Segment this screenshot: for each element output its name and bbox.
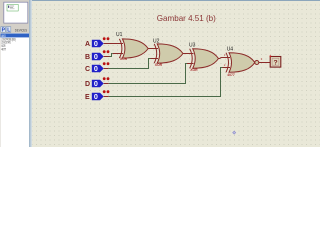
xor gate U1 [116, 32, 148, 61]
xnor gate U4 [226, 47, 259, 77]
svg-text:XOR: XOR [155, 63, 163, 67]
device row XOR [1, 44, 6, 48]
svg-text:0: 0 [94, 39, 98, 48]
xor gate U3 [189, 42, 219, 72]
DEVICES header label [15, 28, 28, 33]
schematic canvas background [32, 0, 320, 147]
logic probe (BIG) [270, 55, 281, 67]
logicstate E [92, 90, 110, 101]
svg-text:U2: U2 [153, 38, 160, 44]
svg-text:U4: U4 [227, 47, 234, 53]
title text Gambar 4.51 (b) [157, 13, 216, 23]
input label C [85, 66, 90, 73]
svg-text:D: D [85, 81, 90, 88]
preview thumbnail sheet [7, 4, 18, 11]
overview preview window [4, 2, 28, 23]
wire C to U2 pin2 [104, 59, 158, 69]
svg-text:XOR: XOR [190, 68, 198, 72]
device row LOGICSTATE [1, 41, 11, 45]
svg-text:DEVICES: DEVICES [15, 28, 28, 33]
svg-text:U1: U1 [116, 32, 123, 38]
svg-text:4077: 4077 [1, 48, 6, 52]
logicstate A [92, 37, 110, 48]
input label D [85, 81, 90, 88]
selected device row AND [1, 34, 30, 38]
svg-text:0: 0 [94, 79, 98, 88]
device row LOGICPROBE [BIG] [1, 37, 16, 41]
wire A to U1 pin1 [104, 43, 123, 45]
logicstate B [92, 50, 110, 61]
svg-text:Gambar 4.51 (b): Gambar 4.51 (b) [157, 13, 216, 23]
wire B to U1 pin2 [104, 54, 123, 57]
svg-text:L: L [7, 28, 10, 34]
device list white area [1, 33, 30, 147]
svg-text:XOR: XOR [120, 57, 128, 61]
svg-text:0: 0 [94, 92, 98, 101]
svg-text:4077: 4077 [227, 73, 235, 77]
svg-text:A: A [85, 41, 90, 48]
device row 4077 [1, 48, 6, 52]
wire U1 output to U2 pin1 [148, 48, 159, 50]
svg-text:B: B [85, 54, 90, 61]
wire U4 output to logic probe [259, 62, 270, 64]
left object-selector panel background [0, 0, 29, 147]
wire U3 output to U4 pin1 [218, 58, 230, 59]
input label B [85, 54, 90, 61]
wire D to U3 pin2 [104, 64, 194, 84]
L library button [6, 27, 11, 34]
svg-text:E: E [85, 94, 90, 101]
P pick-device button [1, 27, 6, 34]
wire E to U4 pin2 [104, 68, 230, 97]
logicstate C [92, 62, 110, 73]
input label E [85, 94, 90, 101]
svg-text:0: 0 [94, 64, 98, 73]
svg-text:0: 0 [94, 52, 98, 61]
U4 pin number 1 [224, 53, 226, 57]
svg-text:C: C [85, 66, 90, 73]
cursor origin marker [232, 131, 236, 135]
input label A [85, 41, 90, 48]
U4 pin number 3 [261, 57, 263, 61]
svg-text:?: ? [274, 60, 278, 67]
logicstate D [92, 77, 110, 88]
U4 pin number 2 [224, 63, 226, 67]
xor gate U2 [153, 38, 183, 67]
svg-text:U3: U3 [189, 42, 196, 48]
wire U2 output to U3 pin1 [182, 53, 193, 55]
splitter between panel and canvas [29, 0, 32, 147]
